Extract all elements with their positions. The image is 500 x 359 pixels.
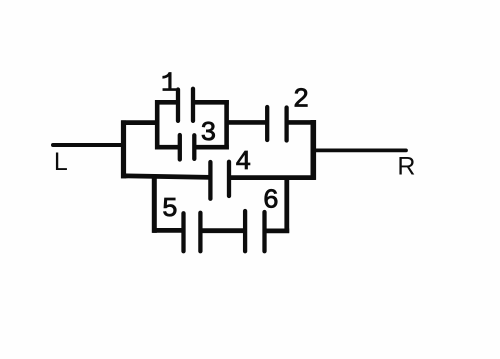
wire: left input lead xyxy=(53,143,123,147)
wire: box bottom rail left segment to C3 xyxy=(155,145,180,150)
capacitor C1 (label 1) plates xyxy=(178,89,193,121)
wire: left bus vertical xyxy=(121,120,126,178)
capacitor C4 (label 4) plates xyxy=(210,162,229,199)
wire: box left vertical (node joining C1 and C3 left sides) xyxy=(155,100,160,150)
wire: right drop vertical from middle rail to bottom branch xyxy=(284,176,289,233)
wire: top rail from left bus to parallel box xyxy=(121,120,157,125)
capacitor C2 (label 2) plates xyxy=(267,107,286,141)
wire: bottom rail right segment from C6 xyxy=(265,228,290,233)
svg-text:4: 4 xyxy=(235,148,251,178)
wire: right bus vertical xyxy=(310,120,316,180)
svg-text:5: 5 xyxy=(162,195,178,225)
wire: box right vertical (node joining C1 and C3 right sides) xyxy=(224,100,229,150)
wire: right output lead xyxy=(315,148,406,152)
wire: bottom rail left segment to C5 xyxy=(153,228,184,233)
capacitor C3 (label 3) plates xyxy=(180,135,195,160)
svg-text:2: 2 xyxy=(293,86,309,116)
wire: box bottom rail right segment from C3 xyxy=(194,145,229,150)
capacitor C6 (label 6) plates xyxy=(245,211,264,251)
wire: left drop vertical to bottom branch xyxy=(152,175,157,233)
capacitor C5 (label 5) plates xyxy=(184,213,201,251)
svg-text:3: 3 xyxy=(200,119,216,149)
svg-text:R: R xyxy=(397,153,415,181)
svg-text:L: L xyxy=(54,148,68,176)
svg-text:6: 6 xyxy=(263,187,279,217)
wire: rail from box to C2 xyxy=(227,120,268,125)
wire: box top rail right segment from C1 xyxy=(193,100,229,105)
wire: middle rail left segment (left bus to C4) xyxy=(121,176,210,178)
wire: middle rail right segment (C4 to right bus) xyxy=(229,175,316,180)
wire: box top rail left segment to C1 xyxy=(155,100,178,105)
wire: rail from C2 to right bus xyxy=(287,120,316,125)
svg-text:1: 1 xyxy=(161,70,177,100)
wire: bottom rail middle segment between C5 and C6 xyxy=(200,228,245,233)
